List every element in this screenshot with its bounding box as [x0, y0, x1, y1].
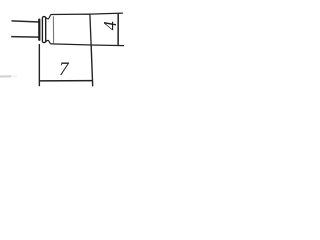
- scan smudge artifact: [0, 75, 11, 77]
- extension line left (length dim): [38, 44, 40, 86]
- crimp groove bottom: [46, 40, 50, 43]
- extension line top (dia dim): [90, 13, 123, 14]
- svg-text:7: 7: [59, 59, 70, 80]
- extension line bottom (dia dim): [91, 44, 124, 47]
- capacitor seal end disc: [38, 19, 40, 41]
- lead wire bottom: [11, 36, 39, 39]
- lead wire top: [12, 21, 40, 22]
- body sleeve seam line: [52, 16, 54, 43]
- capacitor body outline: [50, 14, 91, 45]
- dimension line horizontal (length 7): [39, 80, 92, 82]
- capacitor crimp bead: [42, 17, 45, 43]
- svg-text:4: 4: [100, 21, 120, 30]
- extension line right (length dim): [91, 45, 93, 86]
- crimp groove top: [46, 16, 50, 19]
- dimension line vertical (dia 4): [117, 13, 119, 46]
